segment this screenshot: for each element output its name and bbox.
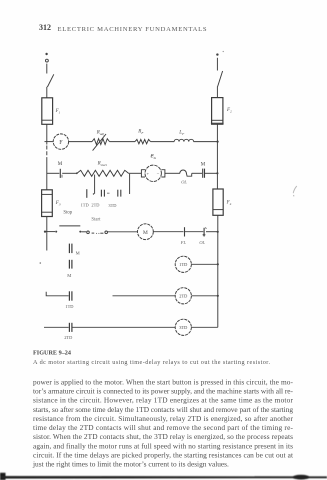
junction 1TD/right rail [217,263,219,265]
svg-text:FL: FL [180,240,187,245]
page bottom scan shadow [0,473,327,480]
wire [165,172,180,174]
contact FL [184,227,186,236]
relay coil 3TD [175,319,191,335]
wire [81,231,86,233]
svg-text:power is applied to the motor.: power is applied to the motor. When the … [33,377,294,386]
wire right rail upper [216,124,218,189]
stray mark [151,155,156,158]
svg-text:M: M [67,273,71,278]
contact 2TD (control) [69,323,72,332]
wire 2TD row left [46,292,68,296]
terminal dot left input [45,53,47,55]
junction control row/left rail [44,231,46,233]
field coil F [53,134,68,149]
wire left rail to control row [46,217,48,251]
relay coil M [138,224,154,240]
svg-text:M: M [76,251,80,256]
contact 3TD (power) [118,190,121,197]
svg-text:M: M [58,162,63,167]
svg-text:2TD: 2TD [179,294,187,299]
stray scan curl [293,186,297,193]
svg-text:2TD: 2TD [91,203,99,208]
wire [192,172,202,174]
wire [191,295,217,297]
svg-text:F2: F2 [226,108,232,113]
contact M (seal-in) [69,244,72,254]
svg-text:A dc motor starting circuit us: A dc motor starting circuit using time-d… [33,359,270,366]
arrow of Radj [93,134,106,151]
svg-text:2TD: 2TD [64,335,72,340]
overload heater OL [180,170,192,176]
wire armature row left [47,172,60,174]
svg-text:LF: LF [178,131,185,136]
svg-text:ELECTRIC MACHINERY FUNDAMENTAL: ELECTRIC MACHINERY FUNDAMENTALS [58,26,208,33]
relay coil 1TD [175,256,191,272]
resistor RF [135,139,151,143]
wire [185,231,204,233]
wire [216,86,218,97]
junction dot [76,172,78,174]
wire [206,231,218,233]
svg-text:M: M [143,230,148,236]
junction field/right rail [217,141,219,143]
resistor Rstart [77,170,129,176]
wire [73,326,176,328]
svg-text:Rstart: Rstart [97,162,108,167]
terminal dot right input [216,53,218,55]
svg-text:OL: OL [181,179,187,184]
contact OL [203,228,207,237]
armature A [145,165,161,181]
wire [153,231,183,233]
wire [108,231,138,233]
fuse F3 [42,190,53,217]
svg-text:time delay the 2TD contacts wi: time delay the 2TD contacts will shut an… [33,423,294,432]
svg-text:EA: EA [150,155,157,160]
resistor Radj [92,139,110,145]
wire 3TD row left [44,326,69,328]
svg-text:3TD: 3TD [179,325,187,330]
wire [45,231,55,233]
armature brush right [161,170,165,177]
tap dot [93,193,94,194]
junction armature/right rail [216,172,218,174]
svg-text:312: 312 [39,23,51,32]
wire [205,172,218,174]
wire [110,141,136,143]
tap wire 3 on Rstart [129,174,131,194]
switch S1 blade [47,74,53,87]
contact 1TD (power) [86,189,88,198]
armature brush left [141,170,145,177]
svg-text:starts, so after some time del: starts, so after some time delay the 1TD… [33,405,293,414]
wire [191,326,217,328]
contact 1TD (control) [69,291,72,300]
node field row left [45,141,53,143]
svg-text:F4: F4 [226,201,232,206]
svg-text:circuit. If the time delays ar: circuit. If the time delays are picked p… [33,451,293,460]
contact 2TD (power) [101,190,104,197]
wire [113,295,176,297]
fuse F2 [211,98,224,125]
svg-text:OL: OL [199,240,205,245]
svg-text:tor’s armature circuit is conn: tor’s armature circuit is connected to i… [33,387,294,396]
wire [62,172,77,174]
svg-text:again, and finally the motor r: again, and finally the motor runs at ful… [33,441,293,450]
wire [46,64,48,74]
body text [32,377,294,468]
inductor LF [174,139,193,141]
wire [194,141,218,143]
svg-text:1TD: 1TD [179,262,187,267]
svg-text:Radj: Radj [96,131,104,136]
wire [216,58,218,71]
pushbutton Start (NO) [87,231,108,234]
wire [191,263,217,265]
svg-text:1TD: 1TD [65,304,73,309]
svg-text:1TD: 1TD [81,203,89,208]
wire [129,172,142,174]
contact M (right, armature row) [203,169,205,178]
wire right rail lower [217,215,219,327]
junction 2TD/right rail [217,295,219,297]
svg-text:M: M [201,163,206,168]
svg-text:RF: RF [137,130,144,135]
stray dot [40,262,42,264]
svg-text:FIGURE 9–24: FIGURE 9–24 [33,350,71,357]
svg-text:just the right times to limit: just the right times to limit the motor’… [32,460,229,469]
fuse F4 [213,189,223,215]
wire left rail upper [46,124,48,144]
wire [151,141,175,143]
svg-text:F1: F1 [55,109,61,114]
open terminal circle left [46,59,49,62]
wire [46,87,48,98]
svg-text:sistance in the circuit. Howev: sistance in the circuit. However, relay … [33,396,294,405]
junction control/right rail [217,231,219,233]
fuse F1 [42,98,53,125]
svg-text:Stop: Stop [63,210,72,215]
svg-text:−: − [157,172,160,177]
pushbutton Stop (NC) [55,226,81,233]
contact M (1TD branch) [69,260,72,269]
contact M (armature circuit) [60,169,62,178]
relay coil 2TD [175,288,191,304]
svg-text:Start: Start [91,217,101,222]
tap wire 1 on Rstart [94,175,96,194]
tap wire 2 remnant [107,192,110,194]
wire [69,141,92,143]
svg-text:3TD: 3TD [108,203,116,208]
svg-text:resistance from the circuit. S: resistance from the circuit. Simultaneou… [33,414,294,423]
switch S2 blade [218,71,223,87]
wire left rail (faded dashes) [46,146,48,161]
svg-text:sistor. When the 2TD contacts: sistor. When the 2TD contacts shut, the … [33,432,293,441]
svg-text:F3: F3 [55,201,61,206]
